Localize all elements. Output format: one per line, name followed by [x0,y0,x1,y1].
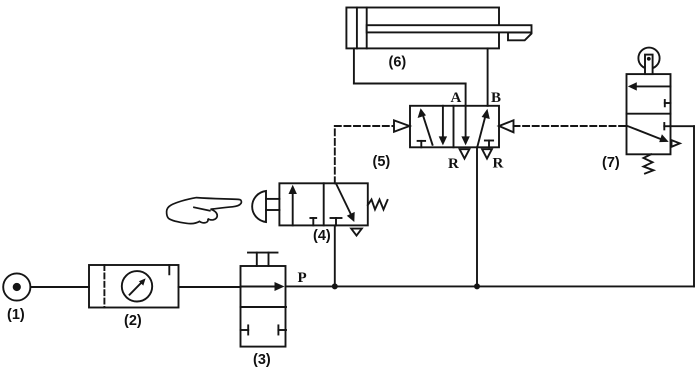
svg-text:(5): (5) [373,154,391,170]
valve 4 return spring [368,200,388,210]
wire valve 4 to supply rail [334,225,336,286]
svg-text:(7): (7) [602,155,620,171]
svg-text:R: R [493,156,504,172]
valve 5 right cell blocked port [485,141,493,148]
wire B port to cylinder right [487,48,489,105]
valve 4 exhaust triangle [351,229,362,236]
hand pointer icon [167,198,242,224]
valve 5 left cell slant arrow [418,108,433,145]
valve 4 right cell blocked port [331,218,342,225]
valve (4) push-button 3/2 valve body [279,183,367,225]
valve 5 exhaust triangle right R [482,149,492,158]
pilot line to valve 5 left (dashed horizontal) [335,125,394,127]
wire cylinder left port [353,48,355,83]
valve 4 left cell up arrow [289,185,297,226]
valve 4 left cell blocked port [310,218,316,225]
filter-regulator unit (2) [89,265,179,308]
valve 7 bottom cell slant arrow [628,126,669,142]
pilot line valve 7 to valve 5 (dashed) [514,125,627,127]
valve 5 right pilot triangle [499,120,514,132]
svg-text:(2): (2) [124,313,142,329]
wire source to unit 2 [31,286,90,288]
valve 3 blocked port right [278,325,286,334]
valve 3 flow arrow [241,282,285,291]
svg-text:(1): (1) [7,307,25,323]
valve 7 bottom cell blocked port [664,123,670,129]
valve 7 top cell blocked port [665,100,671,106]
valve 5 left cell blocked port [418,141,426,147]
pilot line valve 4 to valve 5 (dashed vertical) [334,126,336,183]
valve 5 right cell slant arrow [477,109,490,147]
valve 5 left cell down arrow [439,106,447,146]
cylinder (6) double acting [346,8,499,49]
valve (5) 5/2 directional valve body [410,106,499,148]
svg-text:(3): (3) [253,352,271,368]
wire valve 7 supply from rail [671,126,695,286]
piston rod end cam flag [508,32,532,40]
valve 7 top cell left arrow [628,82,671,90]
junction node at valve 4 branch [332,283,338,289]
valve 7 return spring [644,154,654,173]
wire A port jog (horizontal) [354,83,466,85]
supply rail P wire [286,285,694,287]
valve 3 manual push button actuator [248,253,278,266]
svg-text:P: P [298,270,307,286]
valve 4 right cell slant arrow [336,184,355,223]
valve 7 roller actuator [638,48,659,75]
svg-text:A: A [451,90,462,106]
wire A port to cylinder left (vertical) [465,84,467,106]
wire valve 5 P port to rail [476,147,478,286]
wire unit 2 to valve 3 [179,286,241,288]
valve 3 blocked port left [241,325,249,334]
svg-text:B: B [491,90,501,106]
valve 5 left pilot triangle [394,120,410,131]
valve (3) shut-off valve body [241,266,287,347]
valve 5 exhaust triangle left R [460,149,470,158]
valve 7 exhaust triangle [672,140,680,147]
svg-text:(4): (4) [313,228,331,244]
junction node at valve 5 branch [474,283,480,289]
valve 5 right cell down arrow [461,106,469,146]
svg-text:R: R [448,156,459,172]
svg-text:(6): (6) [389,55,407,71]
air source (1) [3,273,30,300]
valve 4 push button dome [252,191,279,222]
cylinder piston rod [367,25,532,32]
valve (7) roller limit 3/2 valve body [627,74,671,154]
